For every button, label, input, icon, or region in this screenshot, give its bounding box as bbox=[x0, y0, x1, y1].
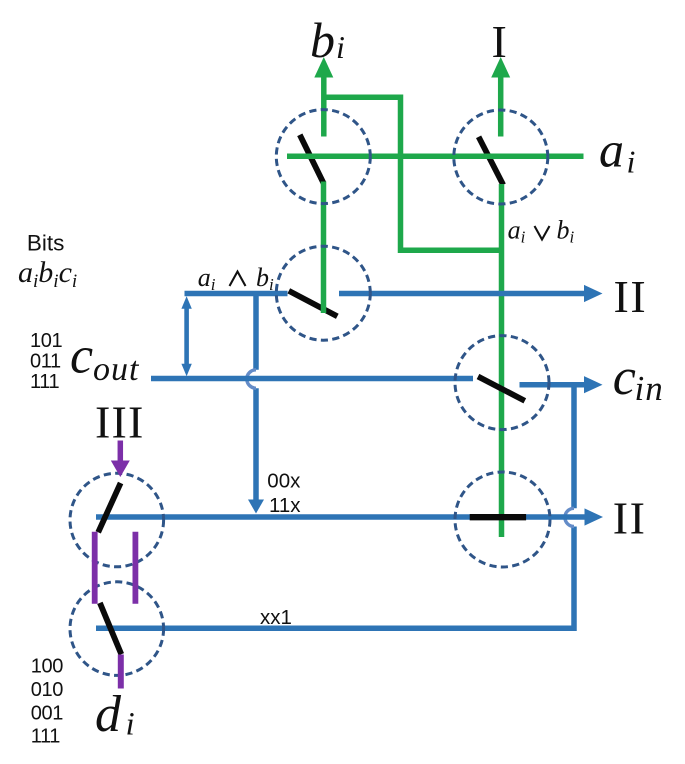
wire: green vertical to b_i output bbox=[314, 57, 333, 137]
svg-text:xx1: xx1 bbox=[260, 606, 292, 629]
switch S5 circle (closed, II bottom) bbox=[455, 472, 550, 567]
switch S1 blade (black) bbox=[300, 135, 324, 184]
svg-text:III: III bbox=[95, 397, 145, 448]
svg-text:11x: 11x bbox=[269, 494, 301, 517]
svg-text:II: II bbox=[614, 271, 648, 322]
svg-text:011: 011 bbox=[30, 351, 61, 373]
wire: a_i horizontal green bus bbox=[287, 153, 584, 159]
wire: green vertical from switch S1 down to switch S3 bbox=[321, 182, 327, 314]
purple III input arrow bbox=[111, 441, 130, 478]
wire: green jog from b_i column to column B down to OR junction bbox=[324, 97, 502, 250]
svg-text:ai: ai bbox=[198, 263, 216, 294]
label c_in bbox=[613, 349, 664, 408]
wire: blue vertical from AND junction down to 00x/11x arrow bbox=[248, 294, 264, 514]
purple gang-link bar right bbox=[132, 532, 138, 604]
svg-text:out: out bbox=[93, 351, 140, 388]
label bit list 100 010 001 111 bbox=[31, 656, 63, 748]
switch S7 blade (black) bbox=[100, 603, 121, 654]
wire: blue a_i AND b_i horizontal bbox=[185, 291, 288, 297]
wire: c_out horizontal blue bbox=[151, 376, 473, 382]
switch S4 blade (black) bbox=[478, 377, 525, 401]
switch S2 circle (I) bbox=[454, 110, 548, 204]
wire hop: vertical over c_out line bbox=[247, 370, 256, 388]
svg-text:bi: bi bbox=[256, 263, 274, 294]
label a_i OR b_i bbox=[508, 216, 575, 247]
svg-text:b: b bbox=[310, 12, 335, 68]
switch S6 circle (III upper) bbox=[70, 473, 164, 567]
svg-text:bi: bi bbox=[557, 216, 575, 247]
svg-text:in: in bbox=[635, 369, 664, 408]
svg-text:111: 111 bbox=[30, 371, 59, 393]
svg-text:Bits: Bits bbox=[27, 231, 65, 256]
svg-text:101: 101 bbox=[30, 330, 62, 352]
wire: green vertical to I output bbox=[491, 57, 510, 137]
wire: blue right vertical from c_in line down to xx1 line bbox=[96, 385, 574, 629]
switch S4 circle (c_in) bbox=[455, 336, 549, 430]
wire: blue II bottom horizontal with arrow bbox=[96, 508, 603, 525]
wire: blue horizontal to c_in with arrow bbox=[520, 376, 603, 393]
switch S3 blade (black) bbox=[289, 291, 338, 317]
svg-text:II: II bbox=[613, 492, 647, 543]
wire: green vertical a_i OR b_i column through S4 S5 bbox=[499, 184, 505, 537]
svg-text:d: d bbox=[95, 686, 122, 743]
label a_i (right) bbox=[599, 122, 635, 180]
switch S5 blade closed (black bar) bbox=[470, 514, 526, 520]
switch S1 circle (b_i) bbox=[276, 110, 370, 204]
svg-text:100: 100 bbox=[31, 656, 63, 678]
label c_out bbox=[70, 328, 140, 388]
svg-text:111: 111 bbox=[31, 726, 60, 748]
purple stub to d_i bbox=[118, 655, 124, 689]
svg-text:001: 001 bbox=[31, 702, 63, 724]
purple gang-link bar left bbox=[92, 532, 98, 604]
label b_i bbox=[310, 12, 345, 68]
switch S3 circle (a AND b) bbox=[276, 246, 370, 340]
wire: blue horizontal to II (top) with arrow bbox=[339, 285, 603, 302]
svg-text:c: c bbox=[613, 349, 636, 406]
svg-text:i: i bbox=[126, 707, 135, 743]
svg-text:010: 010 bbox=[31, 679, 63, 701]
svg-text:00x: 00x bbox=[267, 469, 301, 492]
switch S6 blade (black) bbox=[98, 483, 120, 532]
switch S7 circle (d_i lower) bbox=[70, 582, 164, 676]
label d_i bbox=[95, 686, 135, 743]
svg-text:I: I bbox=[492, 16, 507, 67]
svg-text:i: i bbox=[627, 144, 636, 180]
svg-text:ai: ai bbox=[508, 216, 526, 247]
switch S2 blade (black) bbox=[479, 137, 504, 185]
svg-text:c: c bbox=[70, 328, 93, 385]
svg-text:a: a bbox=[599, 122, 624, 178]
svg-text:aibici: aibici bbox=[18, 256, 77, 292]
label a_i AND b_i bbox=[198, 263, 274, 294]
svg-text:i: i bbox=[336, 29, 345, 65]
wire: blue double-headed arrow between AND line and c_out line bbox=[181, 296, 191, 376]
wire hop: right vertical over II bottom line bbox=[565, 508, 574, 526]
label bit list 101 011 111 bbox=[30, 330, 62, 393]
